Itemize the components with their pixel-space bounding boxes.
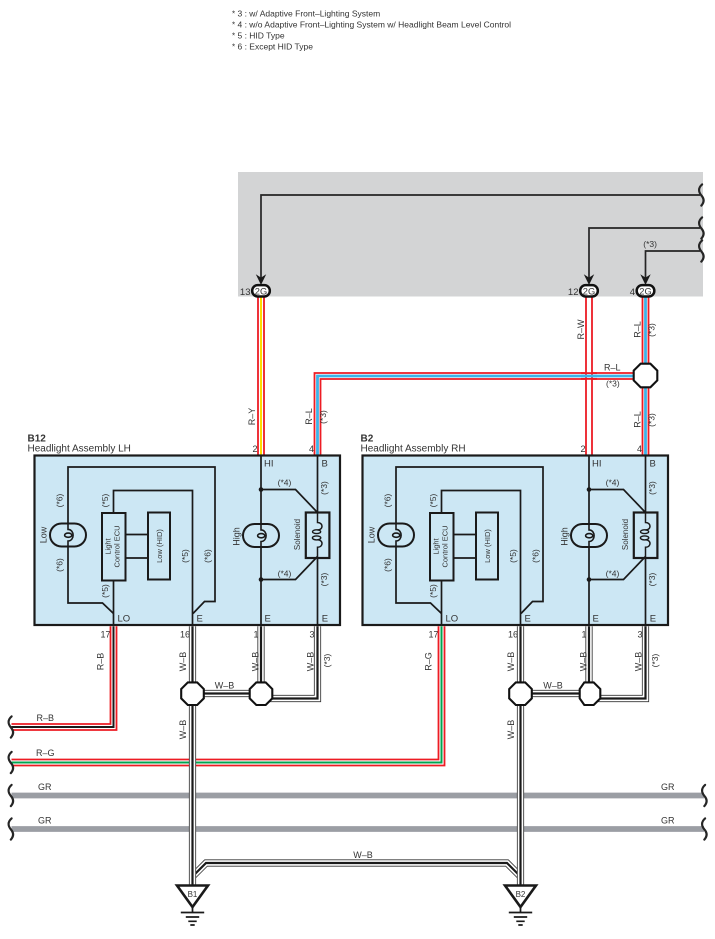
- svg-text:W–B: W–B: [543, 681, 563, 691]
- wire R-Y to LH pin 2: [257, 296, 265, 456]
- svg-text:17: 17: [100, 630, 110, 640]
- svg-text:GR: GR: [38, 782, 52, 792]
- wire GR upper: [12, 793, 705, 799]
- wire from terminal 13 to right edge: [261, 195, 700, 278]
- high bulb: [243, 524, 279, 547]
- svg-text:W–B: W–B: [306, 652, 316, 672]
- svg-text:R–G: R–G: [36, 748, 55, 758]
- wire R-L vertical to RH pin 4: [642, 296, 650, 456]
- wire W-B LH pin 1: [257, 626, 264, 700]
- svg-text:E: E: [265, 614, 271, 625]
- svg-text:R–L: R–L: [304, 408, 314, 425]
- connector 12 2G: [568, 285, 598, 298]
- wire break squiggle GR right upper: [702, 785, 707, 806]
- wire break squiggle R-G left: [9, 752, 14, 773]
- svg-text:(*3): (*3): [647, 323, 657, 337]
- svg-text:R–L: R–L: [604, 363, 621, 373]
- wire W-B LH pin 16 to ground B1: [189, 626, 196, 886]
- svg-text:Solenoid: Solenoid: [293, 519, 302, 550]
- svg-text:HI: HI: [264, 459, 274, 470]
- connector 13 2G: [240, 285, 270, 298]
- splice octagon J: [634, 364, 658, 388]
- wire ECU bottom to LO pin: [113, 580, 115, 625]
- svg-text:Low: Low: [39, 526, 49, 543]
- svg-text:E: E: [197, 614, 203, 625]
- svg-text:2: 2: [252, 444, 257, 454]
- svg-text:* 5 : HID Type: * 5 : HID Type: [232, 31, 285, 41]
- svg-text:(*3): (*3): [643, 239, 657, 249]
- wire W-B RH pin 16 to ground B2: [517, 626, 524, 886]
- wire break squiggle GR left upper: [9, 785, 14, 806]
- svg-text:(*3): (*3): [606, 379, 620, 389]
- svg-text:2G: 2G: [639, 286, 651, 296]
- low bulb: [50, 524, 86, 547]
- svg-text:(*3): (*3): [322, 653, 332, 667]
- svg-text:W–B: W–B: [579, 652, 589, 672]
- svg-text:(*5): (*5): [100, 493, 110, 507]
- wire W-B RH pin 1: [585, 626, 592, 700]
- svg-text:GR: GR: [661, 815, 675, 825]
- light control ECU box: [102, 513, 126, 581]
- wire R-B from LH pin 17: [12, 626, 114, 727]
- connector 4 2G: [630, 285, 655, 298]
- svg-text:Low (HID): Low (HID): [155, 529, 164, 563]
- wire break squiggle: [699, 240, 704, 261]
- wire GR lower: [12, 826, 705, 832]
- svg-text:4: 4: [309, 444, 314, 454]
- svg-text:W–B: W–B: [178, 652, 188, 672]
- wire lower node to solenoid bottom: [261, 557, 318, 580]
- wire W-B splice link LH: [193, 690, 262, 697]
- svg-text:B1: B1: [188, 890, 198, 899]
- power source block (gray): [238, 172, 703, 297]
- svg-text:W–B: W–B: [353, 850, 373, 860]
- svg-text:* 3 : w/ Adaptive Front–Lighti: * 3 : w/ Adaptive Front–Lighting System: [232, 9, 380, 19]
- svg-text:(*3): (*3): [319, 572, 329, 586]
- svg-text:(*5): (*5): [100, 584, 110, 598]
- svg-text:Control ECU: Control ECU: [113, 525, 122, 567]
- svg-text:LO: LO: [118, 614, 131, 625]
- arrow into 13: [256, 274, 266, 285]
- svg-text:W–B: W–B: [506, 720, 516, 740]
- headlight assembly RH (B2): [363, 444, 669, 640]
- svg-text:(*3): (*3): [318, 410, 328, 424]
- legend note list: [232, 9, 511, 52]
- splice octagon LH B: [250, 682, 273, 705]
- svg-text:13: 13: [240, 287, 251, 298]
- svg-text:W–B: W–B: [634, 652, 644, 672]
- svg-text:E: E: [322, 614, 328, 625]
- wire crossing patch R-L over R-W: [581, 373, 597, 379]
- wires ECU to HID: [126, 535, 149, 559]
- svg-text:B: B: [322, 459, 328, 470]
- svg-text:R–L: R–L: [633, 411, 643, 428]
- wire low bulb top to E16: [68, 467, 215, 614]
- svg-text:2G: 2G: [583, 286, 595, 296]
- svg-text:(*3): (*3): [647, 413, 657, 427]
- svg-text:* 4 : w/o Adaptive Front–Light: * 4 : w/o Adaptive Front–Lighting System…: [232, 20, 511, 30]
- wire W-B RH pin 3 to splice: [594, 626, 646, 698]
- ground B2: [505, 886, 536, 926]
- wire break squiggle R-B left: [9, 716, 14, 737]
- svg-text:Light: Light: [104, 537, 113, 554]
- svg-text:W–B: W–B: [215, 681, 235, 691]
- splice octagon LH A: [181, 682, 204, 705]
- svg-text:R–B: R–B: [37, 713, 55, 723]
- svg-text:12: 12: [568, 287, 579, 298]
- wire break squiggle GR right lower: [702, 818, 707, 839]
- svg-text:B2: B2: [516, 890, 526, 899]
- wire HI node to solenoid top: [261, 490, 318, 513]
- svg-text:GR: GR: [38, 815, 52, 825]
- solenoid box: [306, 513, 330, 559]
- arrow into 12: [584, 274, 594, 285]
- svg-text:2G: 2G: [255, 286, 267, 296]
- wire R-G from RH pin 17: [12, 626, 442, 762]
- svg-text:R–Y: R–Y: [247, 408, 257, 426]
- wire from terminal 4 to right edge: [646, 251, 701, 278]
- wire low bulb bottom to LO: [68, 546, 114, 614]
- wire from terminal 12 to right edge: [589, 228, 700, 278]
- ground B1: [177, 886, 208, 926]
- wire ECU top to E16: [114, 491, 193, 625]
- svg-text:W–B: W–B: [506, 652, 516, 672]
- low (HID) box: [148, 513, 170, 580]
- wire break squiggle: [699, 184, 704, 205]
- splice octagon RH A: [509, 682, 532, 705]
- svg-text:R–L: R–L: [633, 321, 643, 338]
- svg-text:(*5): (*5): [180, 549, 190, 563]
- svg-text:3: 3: [309, 630, 314, 640]
- svg-text:Headlight Assembly RH: Headlight Assembly RH: [361, 444, 466, 455]
- wire break squiggle GR left lower: [9, 818, 14, 839]
- label Light Control ECU: [104, 525, 122, 567]
- wire W-B splice link RH: [521, 690, 590, 697]
- junction node upper: [259, 487, 264, 492]
- wire B pin through solenoid: [317, 456, 319, 625]
- wire W-B ground bus: [193, 863, 521, 877]
- svg-text:(*4): (*4): [278, 478, 292, 488]
- wire HI pin through high bulb: [260, 456, 262, 625]
- arrow into 4: [640, 274, 650, 285]
- wire break squiggle: [699, 217, 704, 238]
- svg-text:W–B: W–B: [251, 652, 261, 672]
- svg-text:(*4): (*4): [278, 569, 292, 579]
- junction node lower: [259, 577, 264, 582]
- svg-text:GR: GR: [661, 782, 675, 792]
- svg-text:R–W: R–W: [576, 319, 586, 340]
- wire R-W to RH pin 2: [585, 296, 593, 456]
- headlight assembly LH (B12) internals: [35, 444, 341, 640]
- svg-text:(*3): (*3): [650, 653, 660, 667]
- svg-text:R–B: R–B: [96, 653, 106, 671]
- splice octagon RH B: [580, 682, 601, 705]
- svg-text:(*6): (*6): [55, 558, 65, 572]
- svg-text:Headlight Assembly LH: Headlight Assembly LH: [28, 444, 131, 455]
- svg-text:(*6): (*6): [55, 493, 65, 507]
- assembly box: [35, 456, 341, 626]
- svg-text:(*6): (*6): [203, 549, 213, 563]
- svg-text:W–B: W–B: [178, 720, 188, 740]
- svg-text:(*3): (*3): [319, 481, 329, 495]
- svg-text:* 6 : Except HID Type: * 6 : Except HID Type: [232, 42, 313, 52]
- svg-text:R–G: R–G: [424, 652, 434, 671]
- wire R-L horizontal (*3): [318, 376, 646, 456]
- svg-text:High: High: [232, 527, 242, 546]
- wire W-B LH pin 3 to splice: [266, 626, 318, 698]
- svg-text:16: 16: [180, 630, 190, 640]
- solenoid coil: [318, 513, 323, 530]
- svg-text:4: 4: [630, 287, 635, 298]
